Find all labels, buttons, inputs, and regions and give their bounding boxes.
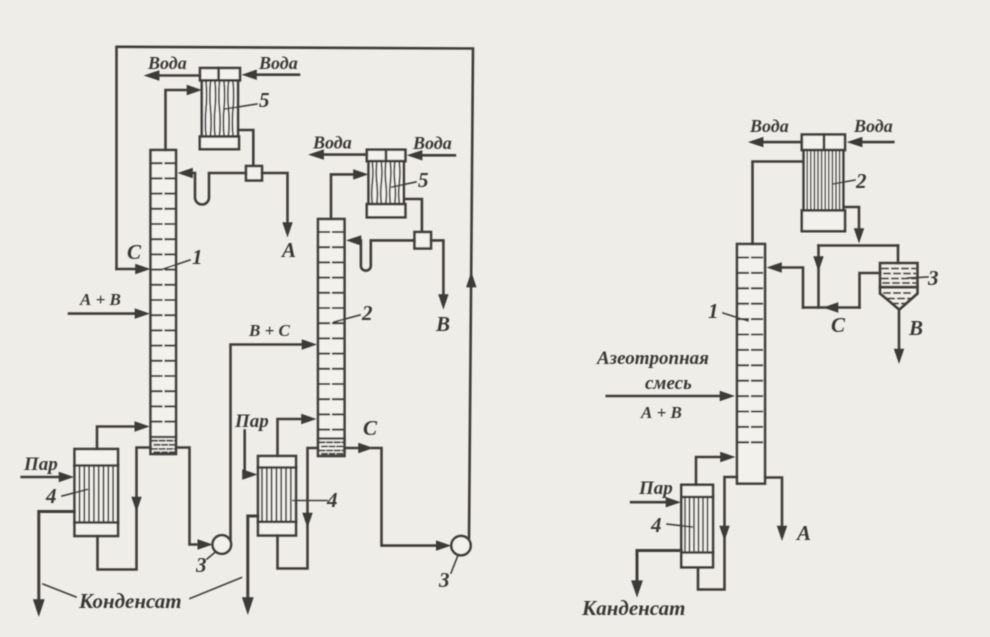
divider box (distillate splitter) [246, 166, 262, 181]
condenser 2 shell with tubes [804, 150, 844, 210]
svg-text:Канденсат: Канденсат [581, 596, 685, 620]
water outlet arrow left (condenser 2) [761, 141, 802, 144]
column 1 trays (dashed) [152, 163, 176, 421]
svg-text:3: 3 [438, 568, 450, 592]
divider box (second) [415, 232, 432, 249]
column 1 (azeotropic) shell [737, 244, 765, 484]
wire column 1 bottoms to pump 3 [176, 448, 200, 545]
svg-text:3: 3 [927, 266, 939, 290]
water outlet arrow left of condenser 5 [157, 74, 200, 77]
wire mixing line bottom [803, 306, 860, 309]
svg-text:2: 2 [855, 169, 867, 193]
svg-text:5: 5 [418, 168, 429, 192]
wire C recycle entry into column 1 [117, 268, 140, 271]
condenser 2 top header [802, 135, 845, 151]
svg-text:Вода: Вода [312, 133, 352, 153]
svg-text:А: А [795, 521, 811, 545]
wire recycle-loop top and sides (C recycle from pump 3 to column 1) [117, 47, 474, 538]
wire steam condensate out (middle) [248, 516, 258, 600]
svg-text:Вода: Вода [749, 116, 789, 136]
condenser 5 (second) bottom header [367, 204, 406, 217]
svg-text:С: С [363, 416, 378, 440]
column 2 bottom liquid section [318, 437, 345, 439]
wire reflux into column (azeotropic) [780, 268, 803, 308]
svg-text:4: 4 [650, 513, 662, 537]
svg-text:А + В: А + В [79, 290, 121, 309]
wire condensate down from condenser 2 [843, 207, 859, 231]
wire condensate down leg to mixing line [817, 246, 820, 308]
wire condensate from condenser to divider box (second) [404, 199, 422, 232]
steam inlet arrow (right reboiler) [631, 501, 668, 504]
reboiler 4 (left) shell [75, 449, 119, 536]
wire vapour line to condenser 2 [753, 162, 803, 245]
wire vapour return right reboiler to column [696, 457, 722, 485]
wire steam condensate out (left) [39, 512, 75, 603]
condenser 2 bottom header [802, 210, 845, 231]
wire vapour line column 1 to condenser 5 [166, 90, 190, 150]
svg-text:2: 2 [361, 301, 373, 325]
column 2 trays (dashed) [319, 232, 344, 430]
wire pump 3 discharge B+C to column 2 [231, 345, 304, 541]
feed azeotropic mixture arrow [607, 395, 722, 398]
wire vapour line column 2 to condenser 5 (second) [331, 174, 355, 219]
condenser 5 (first) top header [200, 68, 240, 80]
wire steam condensate out (right) [637, 551, 681, 584]
wire condensate from condenser 5 to divider box [238, 130, 253, 166]
wire reflux with U-seal into column 1 [191, 173, 247, 205]
column 2 shell [318, 219, 345, 456]
svg-text:3: 3 [195, 553, 207, 577]
condenser 5 (second) shell with tubes [369, 161, 404, 204]
svg-text:Вода: Вода [853, 116, 893, 136]
svg-text:В: В [908, 316, 923, 340]
separator 3 vessel [880, 263, 918, 310]
svg-text:5: 5 [259, 88, 270, 112]
reboiler 4 (middle) tubes [262, 468, 291, 522]
steam inlet arrow (left reboiler) [22, 476, 61, 479]
svg-text:Пар: Пар [234, 411, 269, 432]
wire from separator upper phase [860, 273, 881, 308]
wire vapour return reboiler to column 1 [97, 427, 137, 450]
feed A+B arrow into column 1 [69, 312, 137, 315]
condenser 5 (second) top header [367, 150, 406, 162]
wire liquid downcomer to right reboiler [698, 477, 737, 590]
svg-text:Вода: Вода [147, 53, 187, 73]
wire reflux with U-seal into column 2 [359, 240, 415, 270]
wire column 2 bottoms C to pump 3 (right) [345, 447, 361, 450]
svg-text:Азеотропная: Азеотропная [596, 348, 709, 369]
wire heavy phase B out of separator [898, 309, 901, 351]
wire vapour return middle reboiler to column 2 [278, 419, 304, 456]
svg-text:В: В [435, 312, 450, 336]
svg-text:Вода: Вода [412, 133, 452, 153]
wire distillate B out [431, 240, 443, 296]
svg-text:Конденсат: Конденсат [78, 589, 182, 613]
wire liquid downcomer column 2 to middle reboiler [278, 448, 319, 569]
column 1 (azeotropic) trays [738, 258, 764, 443]
svg-text:Пар: Пар [638, 478, 673, 499]
water inlet arrow right (condenser 2) [860, 141, 893, 144]
svg-text:Вода: Вода [258, 53, 298, 73]
pump 3 (right) [451, 536, 470, 555]
svg-text:С: С [127, 240, 142, 264]
water inlet arrow right of condenser 5 [255, 73, 300, 76]
pump 3 (left) [213, 535, 232, 554]
svg-text:А + В: А + В [640, 403, 682, 422]
column 1 shell [151, 150, 177, 454]
arrowhead up on recycle riser [466, 272, 476, 288]
wire liquid downcomer column 1 to reboiler [98, 448, 151, 570]
svg-text:1: 1 [708, 299, 719, 323]
condenser 5 (first) shell with tubes [202, 80, 238, 136]
svg-text:Пар: Пар [23, 454, 58, 475]
reboiler 4 (left) tubes [80, 466, 114, 523]
wire distillate A out [262, 173, 288, 225]
svg-text:смесь: смесь [645, 373, 692, 394]
wire condensate distribution header [819, 244, 899, 247]
water outlet arrow left (second condenser) [322, 153, 367, 156]
reboiler 4 (right) tubes [685, 497, 708, 553]
svg-text:В + С: В + С [248, 321, 291, 340]
svg-text:А: А [280, 238, 296, 262]
steam inlet (middle reboiler) [243, 431, 246, 475]
reboiler 4 (right) shell [681, 485, 713, 568]
reboiler 4 (middle) shell [258, 456, 296, 536]
svg-text:4: 4 [45, 484, 57, 508]
svg-text:С: С [831, 313, 846, 337]
wire to separator [897, 246, 900, 264]
column 1 bottom liquid section [151, 436, 177, 438]
condenser 5 (first) bottom header [200, 137, 239, 150]
water inlet arrow right (second condenser) [420, 154, 455, 157]
wire bottoms product A out [765, 478, 782, 528]
svg-text:1: 1 [192, 245, 203, 269]
